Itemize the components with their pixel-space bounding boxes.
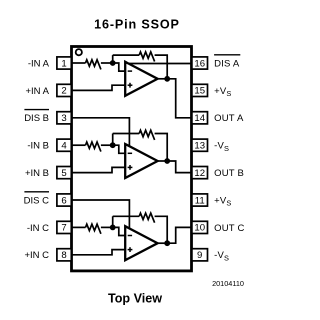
svg-text:12: 12 [194,168,205,179]
wire: feedback riser from node B [112,134,114,146]
wire: node to op-amp C inverting input [113,227,126,235]
node: inverting input junction B [110,142,116,148]
svg-text:7: 7 [61,223,66,234]
svg-text:+VS: +VS [214,86,231,98]
svg-text:-IN B: -IN B [27,141,49,152]
pin 5 [57,167,71,179]
wire: pin +IN A to op-amp A non-inverting input [72,85,126,90]
svg-text:1: 1 [61,58,66,69]
pin 9 label -VS [214,250,229,262]
svg-text:3: 3 [61,113,66,124]
pin 9 [192,249,208,261]
pin 15 label +VS [214,86,231,98]
resistor RfB (feedback) [139,130,154,140]
pin 15 [192,84,208,96]
IC package body [72,47,192,271]
svg-text:+IN C: +IN C [24,250,49,261]
svg-text:OUT A: OUT A [214,113,244,124]
svg-text:-IN C: -IN C [27,223,49,234]
wire: feedback top run C [113,215,140,217]
pin 14 label OUT A [214,113,244,124]
pin 13 label -VS [214,141,229,153]
svg-text:DIS A: DIS A [214,58,240,69]
resistor RinB (input) [86,142,101,152]
node: inverting input junction A [110,60,116,66]
svg-text:16-Pin SSOP: 16-Pin SSOP [94,17,180,31]
svg-text:10: 10 [194,223,205,234]
pin 10 label OUT C [214,223,244,234]
svg-text:-VS: -VS [214,250,229,262]
wire: pin -IN C to input resistor [72,226,86,228]
pin 6 [57,194,71,206]
svg-text:11: 11 [195,195,205,206]
svg-text:8: 8 [61,250,66,261]
svg-text:OUT B: OUT B [214,168,244,179]
svg-text:16: 16 [194,58,205,69]
svg-text:14: 14 [194,113,205,124]
pin 3 [57,112,71,124]
svg-text:15: 15 [194,86,205,97]
pin 7 [57,221,71,233]
wire: pin -IN B to input resistor [72,144,86,146]
pin 6 label DIS C [24,192,49,207]
pin 14 [192,112,208,124]
pin 4 [57,139,71,151]
svg-text:20104110: 20104110 [212,279,244,288]
wire: output node to OUT pin C [167,227,191,243]
op-amp UA (A amplifier) [125,62,157,96]
wire: node to op-amp B inverting input [113,145,126,153]
wire: feedback resistor to down-leg C [155,216,168,243]
pin 1 label -IN A [28,58,50,69]
pin 11 label +VS [214,195,231,207]
wire: feedback resistor to down-leg B [155,134,168,162]
op-amp UB (B amplifier) [125,144,157,178]
svg-text:OUT C: OUT C [214,223,244,234]
svg-text:-IN A: -IN A [28,58,50,69]
resistor RinA (input) [86,60,101,70]
wire: input resistor to inverting node B [101,144,113,146]
wire: DIS C from pin to op-amp C [72,200,130,229]
svg-text:2: 2 [61,86,66,97]
resistor RinC (input) [86,224,101,234]
pin 13 [192,139,208,151]
pin 1 marker circle [76,49,82,55]
svg-text:DIS B: DIS B [24,113,49,124]
svg-text:4: 4 [61,141,67,152]
wire: DIS A from pin 16 to op-amp A [128,63,191,65]
pin 12 [192,167,208,179]
wire: pin +IN C to op-amp C non-inverting input [72,250,126,255]
pin 3 label DIS B [24,110,49,125]
op-amp UC (C amplifier) [125,226,157,260]
svg-text:Top View: Top View [108,291,162,305]
pin 16 [192,57,208,69]
svg-text:6: 6 [61,195,66,206]
svg-text:5: 5 [61,168,66,179]
wire: input resistor to inverting node C [101,226,113,228]
svg-text:+VS: +VS [214,195,231,207]
pin 16 label DIS A [214,55,240,70]
node: inverting input junction C [110,225,116,231]
wire: pin -IN A to input resistor [72,62,86,64]
pin 4 label -IN B [27,141,49,152]
svg-text:+IN B: +IN B [25,168,49,179]
node: output junction A [164,76,170,82]
svg-text:-VS: -VS [214,141,229,153]
pin 2 [57,84,71,96]
wire: feedback top run A [113,54,140,56]
wire: input resistor to inverting node A [101,62,113,64]
svg-text:9: 9 [197,250,202,261]
wire: op-amp C output to node [158,242,168,244]
node: output junction C [164,240,170,246]
pin 10 [192,221,208,233]
pin 1 [57,57,71,69]
pin 8 label +IN C [24,250,49,261]
wire: pin +IN B to op-amp B non-inverting input [72,167,126,172]
pin 7 label -IN C [27,223,49,234]
resistor RfA (feedback) [139,52,154,62]
wire: output node to OUT pin A [167,79,191,118]
wire: op-amp B output to node [158,160,168,162]
wire: feedback top run B [113,133,140,135]
pin 12 label OUT B [214,168,244,179]
pin 5 label +IN B [25,168,49,179]
wire: op-amp A output to node [158,78,168,80]
wire: feedback riser from node C [112,216,114,227]
wire: node to op-amp A inverting input [113,63,126,71]
wire: feedback riser from node A [112,55,114,63]
pin 2 label +IN A [26,86,50,97]
svg-text:+IN A: +IN A [26,86,50,97]
wire: output node to OUT pin B [167,161,191,173]
pin 11 [192,194,208,206]
svg-text:DIS C: DIS C [24,195,49,206]
pin 8 [57,249,71,261]
resistor RfC (feedback) [139,213,154,223]
svg-text:13: 13 [194,141,205,152]
node: output junction B [164,158,170,164]
wire: feedback resistor to down-leg A [155,55,168,79]
wire: DIS B from pin to op-amp B [72,118,130,147]
